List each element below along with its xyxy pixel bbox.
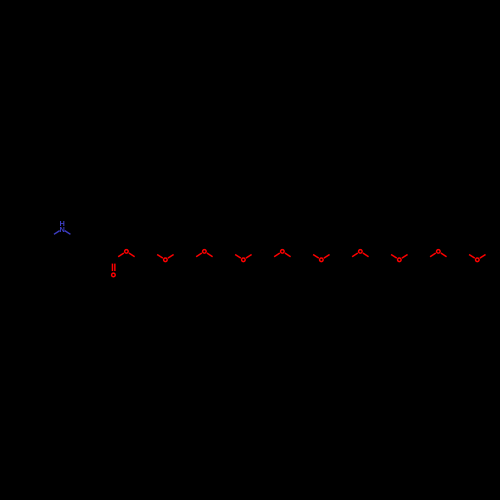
- svg-text:N: N: [60, 225, 65, 234]
